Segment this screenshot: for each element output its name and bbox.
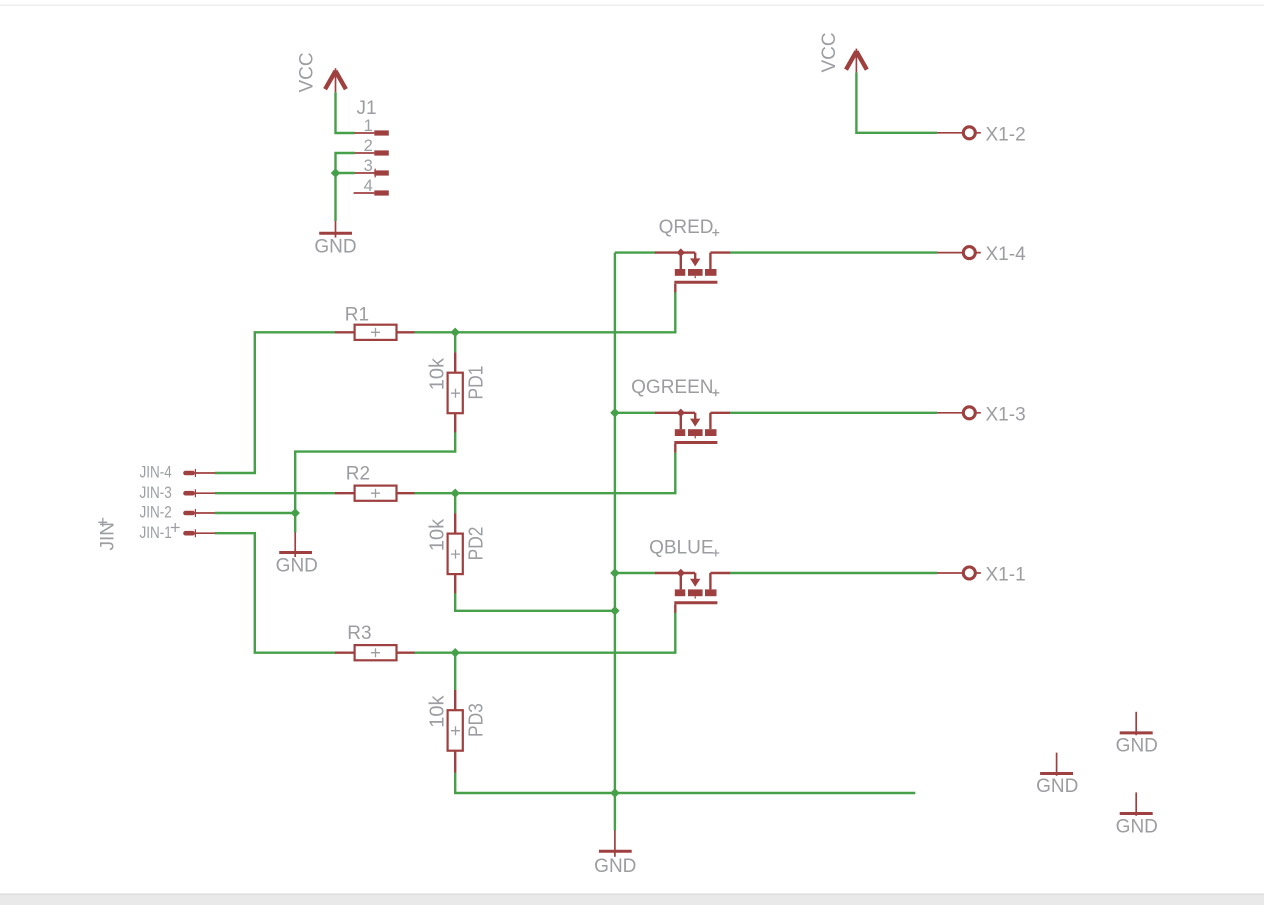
pin JIN-1 xyxy=(183,529,215,537)
svg-text:X1-4: X1-4 xyxy=(986,244,1027,265)
wire rail to GND (bottom) xyxy=(614,793,616,831)
transistor QRED xyxy=(655,248,731,292)
svg-text:PD2: PD2 xyxy=(464,527,486,561)
ground GND (floating top-right) xyxy=(1116,712,1158,757)
origin cross QRED xyxy=(712,229,719,236)
pin JIN-2 xyxy=(183,509,215,517)
origin cross R3 xyxy=(371,648,380,657)
label PD2 xyxy=(464,527,486,561)
svg-text:10k: 10k xyxy=(426,518,448,551)
svg-text:PD3: PD3 xyxy=(464,703,486,737)
label JIN (rotated) xyxy=(97,522,118,551)
wire R3 to QBLUE gate xyxy=(415,613,676,653)
junction at J1 pin 3 xyxy=(331,168,340,177)
label QGREEN xyxy=(631,377,713,398)
label X1-4 xyxy=(986,244,1027,265)
label JIN-4 xyxy=(139,463,171,482)
terminal X1-3 xyxy=(937,407,981,419)
pin 4 label xyxy=(364,177,373,195)
origin cross QBLUE xyxy=(712,550,719,557)
wire VCC to X1-2 xyxy=(856,72,937,132)
top hairline xyxy=(0,5,1264,7)
junction PD2/rail xyxy=(610,606,619,615)
label R1 xyxy=(345,304,369,325)
transistor QGREEN xyxy=(655,409,731,453)
resistor PD2 xyxy=(448,513,463,593)
svg-text:R2: R2 xyxy=(346,464,370,485)
svg-text:QRED: QRED xyxy=(659,217,714,238)
ground GND (bottom center) xyxy=(594,830,636,877)
label R2 xyxy=(346,464,370,485)
label X1-3 xyxy=(986,404,1026,425)
svg-text:GND: GND xyxy=(1116,816,1158,837)
origin cross JIN xyxy=(98,518,107,527)
svg-text:JIN-3: JIN-3 xyxy=(139,484,171,503)
svg-text:10k: 10k xyxy=(426,694,448,727)
svg-text:10k: 10k xyxy=(426,357,448,390)
value label 10k (PD1) xyxy=(426,357,448,390)
origin cross QGREEN xyxy=(712,389,719,396)
svg-text:VCC: VCC xyxy=(297,52,318,92)
supply VCC (left) xyxy=(325,68,346,92)
pin 1 label xyxy=(364,117,373,135)
junction R2/PD2 xyxy=(451,489,460,498)
svg-text:3: 3 xyxy=(364,157,373,175)
pin 2 label xyxy=(364,137,373,155)
origin cross JIN-1 xyxy=(171,523,180,532)
wire JIN-2 to node xyxy=(215,512,295,514)
svg-text:X1-3: X1-3 xyxy=(986,404,1026,425)
label JIN-1 xyxy=(139,524,171,543)
label PD1 xyxy=(464,366,486,400)
svg-text:X1-1: X1-1 xyxy=(986,565,1026,586)
svg-text:QGREEN: QGREEN xyxy=(631,377,713,398)
wire PD2 to rail xyxy=(455,593,615,611)
svg-text:4: 4 xyxy=(364,177,373,195)
terminal X1-2 xyxy=(937,127,981,139)
junction rail QBLUE xyxy=(610,568,619,577)
label QRED xyxy=(659,217,714,238)
label VCC (left, rotated) xyxy=(297,52,318,92)
wire rail to QGREEN xyxy=(615,412,656,414)
resistor R1 xyxy=(335,325,415,340)
origin cross PD2 xyxy=(451,550,460,559)
svg-text:1: 1 xyxy=(364,117,373,135)
origin cross R1 xyxy=(371,328,380,337)
label PD3 xyxy=(464,703,486,737)
svg-text:GND: GND xyxy=(1116,736,1158,757)
label X1-1 xyxy=(986,565,1026,586)
wire node to GND (JIN) xyxy=(294,513,296,533)
resistor PD3 xyxy=(448,690,463,773)
svg-text:R3: R3 xyxy=(347,623,371,644)
wire R1 to QRED gate xyxy=(415,292,676,332)
pin 3 label xyxy=(364,157,373,175)
svg-text:JIN: JIN xyxy=(97,522,118,551)
wire JIN-3 to R2 xyxy=(215,492,335,494)
junction R3/PD3 xyxy=(451,648,460,657)
svg-text:GND: GND xyxy=(1036,776,1078,797)
resistor R2 xyxy=(335,486,415,501)
junction rail QGREEN xyxy=(610,408,619,417)
resistor R3 xyxy=(335,645,415,660)
pin JIN-3 xyxy=(183,489,215,497)
svg-text:2: 2 xyxy=(364,137,373,155)
ground GND (JIN) xyxy=(276,532,318,576)
wire rail to QBLUE xyxy=(615,572,656,574)
ground GND (under J1) xyxy=(314,221,356,257)
origin cross PD1 xyxy=(451,389,460,398)
svg-text:GND: GND xyxy=(314,236,356,257)
wire J1 pin 2 down to GND xyxy=(336,153,355,221)
wire VCC to J1 pin 1 xyxy=(336,92,355,133)
label J1 xyxy=(357,98,377,119)
terminal X1-1 xyxy=(937,567,981,579)
wire J1 pin 3 xyxy=(336,172,355,174)
wire PD1 down-left to JIN-2 node xyxy=(295,432,455,513)
wire QRED to X1-4 xyxy=(730,251,937,253)
svg-text:GND: GND xyxy=(276,556,318,577)
wire R1 node down to PD1 xyxy=(454,332,456,352)
ground GND (floating bottom-right) xyxy=(1116,792,1158,837)
svg-text:R1: R1 xyxy=(345,304,369,325)
wire JIN-4 rail up to R1 xyxy=(215,332,335,473)
wire R3 node down to PD3 xyxy=(454,653,456,690)
wire R2 node down to PD2 xyxy=(454,493,456,513)
supply VCC (right) xyxy=(846,49,867,73)
label JIN-3 xyxy=(139,484,171,503)
origin cross PD3 xyxy=(451,726,460,735)
svg-text:VCC: VCC xyxy=(819,32,840,72)
svg-text:J1: J1 xyxy=(357,98,377,119)
junction bottom rail xyxy=(610,788,619,797)
svg-text:JIN-4: JIN-4 xyxy=(139,463,171,482)
wire QGREEN to X1-3 xyxy=(730,412,937,414)
wire R2 to QGREEN gate xyxy=(415,453,676,494)
junction JIN-2 node xyxy=(291,508,300,517)
bottom scrollbar strip xyxy=(0,894,1264,905)
junction R1/PD1 xyxy=(451,328,460,337)
value label 10k (PD3) xyxy=(426,694,448,727)
origin cross R2 xyxy=(371,489,380,498)
terminal X1-4 xyxy=(937,247,981,259)
resistor PD1 xyxy=(448,352,463,432)
svg-text:JIN-1: JIN-1 xyxy=(139,524,171,543)
wire rail to QRED xyxy=(615,251,656,253)
value label 10k (PD2) xyxy=(426,518,448,551)
wire PD3 to bottom net xyxy=(455,773,915,793)
pin JIN-4 xyxy=(183,469,215,477)
svg-text:PD1: PD1 xyxy=(464,366,486,400)
svg-text:QBLUE: QBLUE xyxy=(649,537,713,558)
svg-text:JIN-2: JIN-2 xyxy=(139,503,171,522)
connector J1 xyxy=(354,130,389,195)
label X1-2 xyxy=(986,124,1026,145)
transistor QBLUE xyxy=(655,569,731,613)
svg-text:GND: GND xyxy=(594,856,636,877)
label QBLUE xyxy=(649,537,713,558)
label VCC (right, rotated) xyxy=(819,32,840,72)
ground GND (floating left) xyxy=(1036,753,1078,798)
wire QBLUE to X1-1 xyxy=(730,572,937,574)
wire JIN-1 rail down to R3 xyxy=(215,533,335,653)
label R3 xyxy=(347,623,371,644)
label JIN-2 xyxy=(139,503,171,522)
wire main drain rail xyxy=(614,253,616,793)
svg-text:X1-2: X1-2 xyxy=(986,124,1026,145)
